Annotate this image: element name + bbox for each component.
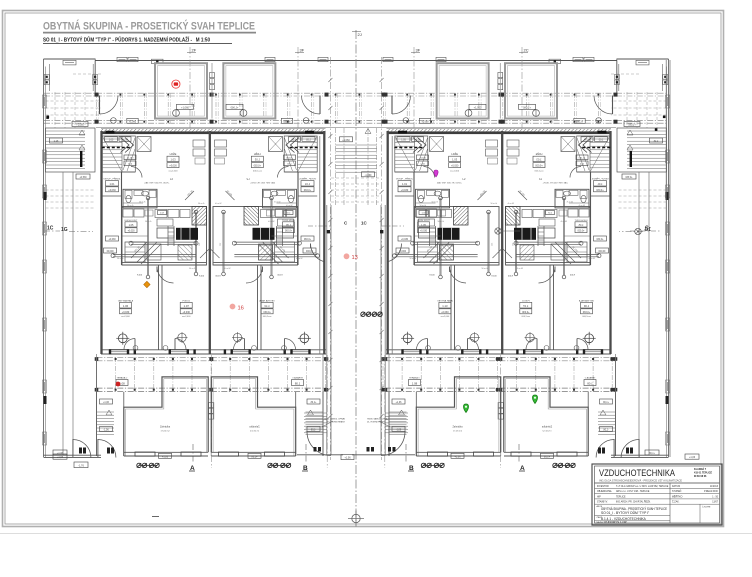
- svg-text:1.05: 1.05: [109, 139, 114, 141]
- svg-text:VSTUP - PŘEDS.: VSTUP - PŘEDS.: [396, 178, 414, 181]
- living room door arc: [539, 267, 556, 284]
- svg-text:xx=2,600: xx=2,600: [521, 316, 530, 318]
- service core: [415, 207, 500, 266]
- svg-text:1.07: 1.07: [184, 304, 190, 308]
- svg-text:ARS s.r.o. U PLY 198 - TEPLICE: ARS s.r.o. U PLY 198 - TEPLICE: [616, 490, 650, 493]
- svg-text:+1,060: +1,060: [523, 106, 531, 109]
- right wing: [611, 59, 670, 458]
- svg-text:TERASA ▽: TERASA ▽: [117, 376, 128, 379]
- svg-text:+0,030: +0,030: [108, 239, 116, 241]
- outdoor stair: [615, 392, 617, 456]
- svg-text:T+T OLG GROUP a.s. U NOV. LANI: T+T OLG GROUP a.s. U NOV. LANI 582, TEPL…: [616, 485, 669, 488]
- wing outer wall: [668, 59, 670, 457]
- section letter stubs: [192, 444, 194, 462]
- svg-text:IN 66 08 66: IN 66 08 66: [694, 475, 707, 478]
- band door arc: [302, 96, 321, 115]
- band door arc: [594, 96, 613, 115]
- svg-text:Č.KOPIE: Č.KOPIE: [702, 506, 711, 509]
- outdoor stair: [322, 392, 324, 456]
- stair door arc: [131, 167, 142, 178]
- windows bottom wall: [109, 350, 128, 354]
- svg-text:KUCH. KOUT: KUCH. KOUT: [417, 220, 431, 222]
- svg-text:1.01: 1.01: [597, 182, 603, 186]
- svg-text:TĘSN. SAMOZ. UPRAV: TĘSN. SAMOZ. UPRAV: [367, 418, 389, 421]
- svg-text:K100: K100: [492, 276, 498, 278]
- svg-text:VSTUP - PŘEDS.: VSTUP - PŘEDS.: [591, 178, 609, 181]
- svg-text:xx=2,600: xx=2,600: [262, 316, 271, 318]
- svg-text:xx=2,600: xx=2,600: [581, 316, 590, 318]
- bottom left small boxes: [53, 454, 67, 459]
- ladder: [167, 226, 169, 246]
- wing outer wall: [43, 59, 45, 457]
- svg-text:1C: 1C: [361, 221, 368, 226]
- svg-text:50 m³/h: 50 m³/h: [268, 220, 274, 223]
- duct leaders: [131, 242, 161, 264]
- svg-text:+0,160: +0,160: [127, 158, 135, 160]
- svg-text:+1,06: +1,06: [543, 455, 550, 458]
- svg-text:VZDUCHOTECHNIKA: VZDUCHOTECHNIKA: [599, 468, 676, 478]
- svg-text:50 m³/h: 50 m³/h: [491, 202, 497, 205]
- svg-text:VSTUP - PŘEDS.: VSTUP - PŘEDS.: [103, 178, 121, 181]
- lower band columns: [96, 357, 98, 392]
- svg-text:+0,160: +0,160: [419, 158, 427, 160]
- svg-text:±0,00: ±0,00: [291, 139, 297, 141]
- wardrobe boxes: [137, 137, 151, 152]
- svg-text:K100: K100: [277, 275, 283, 277]
- svg-text:+1,060: +1,060: [76, 124, 84, 127]
- red note 16: [230, 304, 236, 310]
- lower terrace band dash rows: [97, 356, 328, 358]
- small red splotch: [116, 382, 121, 387]
- svg-text:OBJEDNATEL: OBJEDNATEL: [597, 490, 613, 493]
- svg-text:-1,06: -1,06: [396, 430, 402, 432]
- survey cross circles: [300, 334, 309, 343]
- svg-text:2J: 2J: [358, 32, 362, 37]
- svg-text:ZAV. VSP. VZD.TR. ODVC.: ZAV. VSP. VZD.TR. ODVC.: [437, 181, 463, 184]
- windows bottom wall: [583, 350, 602, 354]
- terrace door arcs: [577, 339, 588, 350]
- room partition: [260, 265, 262, 350]
- svg-text:K100: K100: [215, 276, 221, 278]
- svg-text:1.13: 1.13: [264, 304, 270, 308]
- stairwell: [102, 136, 135, 172]
- svg-text:+0,160: +0,160: [578, 158, 586, 160]
- svg-text:1.16: 1.16: [54, 140, 59, 143]
- svg-text:K100: K100: [569, 275, 575, 277]
- bottom window wall: [101, 349, 326, 351]
- terrace band dash-dot rows top: [44, 92, 668, 94]
- partitions: [413, 172, 415, 265]
- svg-text:11/2013: 11/2013: [710, 486, 719, 488]
- duct runs: [234, 241, 299, 243]
- roof boxes above top edge: [117, 57, 127, 61]
- duct leaders: [424, 242, 454, 264]
- svg-text:Č.ZAK.: Č.ZAK.: [672, 501, 680, 504]
- outdoor stair: [388, 392, 390, 456]
- wardrobe boxes: [269, 137, 283, 152]
- svg-text:KUCH. KOUT: KUCH. KOUT: [281, 220, 295, 222]
- svg-text:+1,06: +1,06: [602, 402, 609, 404]
- svg-text:50 m³/h: 50 m³/h: [432, 201, 438, 204]
- living room door arc: [157, 267, 174, 284]
- svg-text:3F: 3F: [416, 48, 421, 53]
- dimension tick pairs: [139, 464, 157, 466]
- svg-text:17,06 m2: 17,06 m2: [249, 430, 259, 432]
- svg-text:DL. HORNÍ HRANY: DL. HORNÍ HRANY: [327, 421, 345, 424]
- wing upper dashed grid: [46, 100, 102, 102]
- svg-text:+0,030: +0,030: [596, 189, 604, 192]
- svg-text:+0,030: +0,030: [577, 231, 585, 233]
- svg-text:+1,06: +1,06: [310, 402, 317, 404]
- svg-text:+0,030: +0,030: [420, 231, 428, 233]
- svg-text:+0,030: +0,030: [535, 165, 543, 168]
- wardrobe boxes: [430, 137, 444, 152]
- svg-text:Zahrádka: Zahrádka: [452, 426, 463, 429]
- svg-text:K100: K100: [137, 275, 143, 277]
- dark appliance block: [438, 228, 460, 240]
- wing exterior stair: [46, 128, 96, 172]
- svg-text:TEPLICE: TEPLICE: [616, 496, 626, 498]
- svg-text:50 m³/h: 50 m³/h: [189, 267, 195, 270]
- svg-text:50 m³/h: 50 m³/h: [567, 201, 573, 204]
- svg-text:50 m³/h: 50 m³/h: [215, 202, 221, 205]
- wardrobe boxes: [561, 137, 575, 152]
- svg-text:50 m³/h: 50 m³/h: [579, 204, 585, 207]
- svg-text:+1,06: +1,06: [57, 456, 64, 459]
- sheet separation line: [0, 533, 752, 535]
- duct risers: [271, 198, 273, 277]
- svg-text:50 m³/h: 50 m³/h: [561, 220, 567, 223]
- duct leaders: [259, 242, 289, 264]
- red circled B marker: [172, 80, 180, 88]
- svg-text:1.05: 1.05: [401, 139, 406, 141]
- svg-text:13/07: 13/07: [712, 502, 718, 504]
- svg-text:K100: K100: [507, 276, 513, 278]
- svg-text:125: 125: [219, 243, 221, 246]
- svg-text:1C: 1C: [47, 226, 54, 232]
- svg-text:xx=1,500: xx=1,500: [534, 171, 544, 173]
- svg-text:+0,030: +0,030: [169, 165, 177, 168]
- svg-text:+0,030: +0,030: [521, 311, 529, 314]
- svg-text:+0,030: +0,030: [108, 189, 116, 192]
- svg-text:ZAV. VSP. VZD.TR. ODVC.: ZAV. VSP. VZD.TR. ODVC.: [250, 181, 276, 184]
- svg-text:13: 13: [352, 255, 358, 261]
- svg-text:Zahrádka: Zahrádka: [249, 426, 260, 429]
- svg-text:50 m³/h: 50 m³/h: [410, 257, 416, 260]
- svg-text:TĘSN. SAMOZ. UPRAV: TĘSN. SAMOZ. UPRAV: [324, 418, 346, 421]
- gap bottom stairs: [304, 412, 327, 414]
- partitions: [121, 172, 123, 265]
- circled X marker right: [495, 228, 501, 234]
- right wing corridor extension: [665, 60, 667, 330]
- svg-text:C: C: [645, 226, 649, 232]
- room partition: [450, 265, 452, 350]
- gap entrance doors: [307, 432, 331, 456]
- svg-text:+1,060: +1,060: [129, 121, 137, 123]
- section lines A and B verticals: [211, 355, 213, 468]
- svg-text:17,06 m2: 17,06 m2: [160, 430, 170, 432]
- unit 4: [503, 63, 616, 458]
- svg-text:1.05: 1.05: [306, 139, 311, 141]
- duct runs: [131, 241, 196, 243]
- svg-text:TERASA ▽: TERASA ▽: [584, 376, 595, 379]
- svg-text:KUCH. KOUT: KUCH. KOUT: [125, 220, 139, 222]
- wing bottom wall: [611, 454, 669, 456]
- svg-text:2F: 2F: [192, 48, 197, 53]
- svg-text:1.07: 1.07: [523, 304, 529, 308]
- svg-text:+0,030: +0,030: [582, 311, 590, 314]
- svg-text:1.16: 1.16: [653, 140, 658, 143]
- duct runs: [413, 241, 478, 243]
- svg-text:1.08: 1.08: [294, 382, 300, 386]
- svg-text:+1,06: +1,06: [162, 455, 169, 458]
- svg-text:+1,06: +1,06: [251, 455, 258, 458]
- svg-text:1.06: 1.06: [583, 304, 589, 308]
- svg-text:SO 01_I - BYTOVÝ DŮM "TYP I": SO 01_I - BYTOVÝ DŮM "TYP I": [601, 510, 650, 515]
- svg-text:1.06: 1.06: [123, 304, 129, 308]
- svg-text:xx=2,600: xx=2,600: [441, 316, 450, 318]
- svg-text:±0,00: ±0,00: [583, 139, 589, 141]
- svg-text:SO 01_I - BYTOVÝ DŮM "TYP I" -: SO 01_I - BYTOVÝ DŮM "TYP I" - PŮDORYS 1…: [43, 36, 210, 44]
- ladder: [543, 226, 545, 246]
- svg-text:1.05: 1.05: [285, 224, 290, 227]
- svg-text:1.08: 1.08: [412, 382, 418, 386]
- svg-text:1.03: 1.03: [170, 158, 176, 162]
- terrace door arcs: [124, 339, 135, 350]
- svg-text:+1,060: +1,060: [342, 139, 350, 142]
- center cross mark: [352, 514, 360, 522]
- svg-text:+0,030: +0,030: [596, 239, 604, 241]
- gap bottom wall: [297, 454, 343, 456]
- bathroom: [416, 189, 450, 208]
- edge dimension boxes: [666, 95, 670, 108]
- green pin 2: [532, 395, 537, 404]
- duct leaders: [551, 242, 581, 264]
- svg-text:-1,06: -1,06: [603, 430, 609, 432]
- svg-text:INVESTOR: INVESTOR: [597, 486, 609, 488]
- garden room: [504, 377, 588, 456]
- loggia room: [505, 63, 557, 118]
- svg-text:2C: 2C: [524, 48, 529, 53]
- svg-text:1.01: 1.01: [402, 182, 408, 186]
- svg-text:TERASA ▽: TERASA ▽: [292, 376, 303, 379]
- terrace door arcs: [285, 339, 296, 350]
- svg-text:50 m³/h: 50 m³/h: [438, 220, 444, 223]
- garden room: [211, 377, 295, 456]
- service core: [213, 207, 298, 266]
- bathroom: [555, 189, 589, 208]
- ladder: [282, 226, 284, 246]
- svg-text:PŮDORYS 1.NP: PŮDORYS 1.NP: [601, 519, 627, 524]
- svg-text:STAVBYV.: STAVBYV.: [597, 501, 608, 504]
- svg-text:±0,00: ±0,00: [415, 139, 421, 141]
- outdoor stair: [96, 392, 98, 456]
- dark appliance block: [253, 228, 275, 240]
- service core: [506, 207, 591, 266]
- svg-text:50 m³/h: 50 m³/h: [517, 267, 523, 270]
- duct risers: [147, 198, 149, 277]
- wing upper dashed grid: [611, 100, 667, 102]
- svg-text:50 m³/h: 50 m³/h: [139, 201, 145, 204]
- partitions: [590, 172, 592, 265]
- svg-text:Zahrádka: Zahrádka: [160, 426, 171, 429]
- svg-text:+1,06: +1,06: [454, 455, 461, 458]
- svg-text:+0,530: +0,530: [625, 177, 633, 179]
- svg-text:OBYTNÁ HALA: OBYTNÁ HALA: [118, 299, 134, 302]
- svg-text:Zahrádka: Zahrádka: [541, 426, 552, 429]
- svg-text:+0,530: +0,530: [79, 177, 87, 179]
- stair door arc: [278, 167, 289, 178]
- svg-text:±0,00: ±0,00: [122, 139, 128, 141]
- garden room: [124, 377, 208, 456]
- svg-text:1.01: 1.01: [109, 182, 115, 186]
- svg-text:+1,06: +1,06: [689, 456, 696, 459]
- svg-text:+0,030: +0,030: [263, 311, 271, 314]
- garden party wall boxes: [209, 403, 214, 408]
- plan top edge: [95, 60, 617, 62]
- svg-text:1.05: 1.05: [598, 139, 603, 141]
- svg-text:xx=2,600: xx=2,600: [182, 316, 191, 318]
- stairwell: [395, 136, 428, 172]
- centerline axis A: [355, 30, 357, 521]
- svg-text:+0,030: +0,030: [284, 231, 292, 233]
- svg-text:50 m³/h: 50 m³/h: [198, 202, 204, 205]
- svg-text:+1,060: +1,060: [421, 121, 429, 123]
- svg-text:OBYTNÁ SKUPINA - PROSETICKÝ SV: OBYTNÁ SKUPINA - PROSETICKÝ SVAH TEPLICE: [43, 20, 255, 33]
- room partition: [553, 265, 555, 350]
- red note 13: [344, 253, 350, 259]
- svg-text:+0,030: +0,030: [127, 231, 135, 233]
- svg-text:50 m³/h: 50 m³/h: [274, 201, 280, 204]
- svg-text:+0,030: +0,030: [401, 189, 409, 192]
- svg-text:KUCH. KOUT: KUCH. KOUT: [574, 220, 588, 222]
- svg-text:1 : 50: 1 : 50: [712, 496, 718, 498]
- edge dimension boxes: [43, 95, 47, 108]
- svg-text:xx=1,500: xx=1,500: [450, 171, 460, 173]
- loggia label stack: [167, 151, 179, 172]
- bathroom: [263, 189, 297, 208]
- svg-text:17,06 m2: 17,06 m2: [453, 430, 463, 432]
- orange diamond marker: [144, 281, 151, 288]
- svg-text:+0,160: +0,160: [285, 158, 293, 160]
- svg-text:+1,06: +1,06: [103, 402, 110, 404]
- top band column squares: [95, 93, 99, 97]
- svg-text:P.RELIZ.DOK: P.RELIZ.DOK: [704, 491, 718, 493]
- top band vertical dashed columns: [96, 93, 98, 124]
- ladder: [429, 226, 431, 246]
- loggia room: [223, 63, 275, 118]
- windows bottom wall: [402, 350, 421, 354]
- svg-text:ZAV. VSP. VZD.TR. ODVC.: ZAV. VSP. VZD.TR. ODVC.: [542, 181, 568, 184]
- svg-text:1.03: 1.03: [536, 158, 542, 162]
- svg-text:+1,060: +1,060: [181, 106, 189, 109]
- svg-text:50 m³/h: 50 m³/h: [508, 202, 514, 205]
- unit boundary walls: [100, 131, 102, 354]
- garden room: [416, 377, 500, 456]
- svg-text:50 m³/h: 50 m³/h: [589, 257, 595, 260]
- svg-text:50 m³/h: 50 m³/h: [296, 257, 302, 260]
- svg-text:OBYTNÁ HALA: OBYTNÁ HALA: [578, 299, 594, 302]
- svg-text:+0,030: +0,030: [183, 311, 191, 314]
- stairwell: [284, 136, 317, 172]
- dark appliance block: [514, 228, 536, 240]
- windows bottom wall: [291, 350, 310, 354]
- svg-text:+0,030: +0,030: [451, 165, 459, 168]
- svg-text:1.05: 1.05: [578, 224, 583, 227]
- left wing: [43, 59, 102, 458]
- svg-text:1.05: 1.05: [129, 224, 134, 227]
- loggia room: [155, 63, 207, 118]
- gap dim pair: [363, 313, 380, 315]
- room partition: [158, 265, 160, 350]
- svg-text:TERASA ▽: TERASA ▽: [409, 376, 420, 379]
- partitions: [297, 172, 299, 265]
- terrace door arcs: [417, 339, 428, 350]
- top axis flags: [189, 47, 191, 128]
- svg-text:125: 125: [511, 243, 513, 246]
- svg-text:-1,06: -1,06: [310, 430, 316, 432]
- svg-text:MĚŘÍTKO: MĚŘÍTKO: [672, 495, 683, 498]
- svg-text:17,06 m2: 17,06 m2: [542, 430, 552, 432]
- dark appliance block: [176, 228, 198, 240]
- loggia divider wall boxes: [210, 73, 215, 78]
- svg-text:50 m³/h: 50 m³/h: [117, 257, 123, 260]
- svg-text:50 m³/h: 50 m³/h: [145, 220, 151, 223]
- hatched dimension strip above unit wall: [101, 129, 326, 132]
- band door arc: [100, 96, 119, 115]
- wing bottom wall: [44, 454, 102, 456]
- svg-text:VSTUP - PŘEDS.: VSTUP - PŘEDS.: [298, 178, 316, 181]
- svg-text:ING.ARCH. PR. CHVÁTAL ŘEZN.: ING.ARCH. PR. CHVÁTAL ŘEZN.: [616, 501, 651, 504]
- unit 3: [389, 63, 502, 458]
- loggia label stack: [533, 151, 545, 172]
- walkway lines: [62, 172, 64, 455]
- svg-text:+1,060: +1,060: [230, 106, 238, 109]
- living room door arc: [246, 267, 263, 284]
- svg-text:+0,030: +0,030: [401, 239, 409, 241]
- svg-text:3F: 3F: [300, 48, 305, 53]
- svg-text:STUPEŇ: STUPEŇ: [672, 490, 682, 493]
- svg-text:±0,000: ±0,000: [106, 251, 114, 253]
- svg-text:-1,060: -1,060: [365, 174, 372, 177]
- band door arc: [392, 96, 411, 115]
- unit 2: [211, 63, 324, 458]
- walkway lines: [648, 172, 650, 455]
- svg-text:50 m³/h: 50 m³/h: [420, 204, 426, 207]
- wing exterior stair: [617, 128, 667, 172]
- svg-text:+1,060: +1,060: [474, 106, 482, 109]
- svg-text:125: 125: [492, 243, 494, 246]
- svg-text:1.03: 1.03: [254, 158, 260, 162]
- gap-facing building walls: [323, 131, 325, 354]
- magenta marker: [434, 170, 438, 177]
- svg-text:+0,030: +0,030: [441, 311, 449, 314]
- circled X marker far right: [635, 228, 641, 234]
- svg-text:+0,030: +0,030: [303, 189, 311, 192]
- bathroom: [123, 189, 157, 208]
- svg-text:1.13: 1.13: [442, 304, 448, 308]
- svg-text:1G: 1G: [61, 227, 68, 233]
- unit top wall: [101, 131, 326, 134]
- svg-text:-1,76: -1,76: [78, 465, 84, 468]
- loggia room: [437, 63, 489, 118]
- svg-text:+1,06: +1,06: [648, 453, 655, 455]
- svg-text:1.01: 1.01: [304, 182, 310, 186]
- svg-text:-1,06: -1,06: [103, 430, 109, 432]
- stair door arc: [424, 167, 435, 178]
- duct risers: [563, 198, 565, 277]
- svg-text:50 m³/h: 50 m³/h: [127, 204, 133, 207]
